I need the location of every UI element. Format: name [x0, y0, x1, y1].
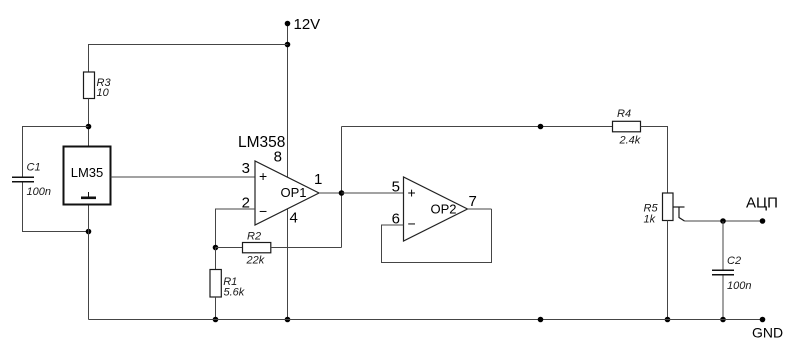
junction C2 top: [720, 218, 726, 224]
resistor R2: [243, 243, 271, 253]
resistor R4: [613, 121, 641, 132]
junction C2 ground: [720, 317, 726, 323]
wire OP1 pin 2 to feedback node: [216, 209, 256, 248]
junction R5 ground: [665, 317, 671, 323]
resistor R3: [84, 72, 95, 99]
svg-text:+: +: [259, 168, 267, 184]
junction LM35 bottom node: [86, 229, 92, 235]
R4 labels: [617, 108, 641, 147]
wire R4 to R5: [641, 127, 668, 194]
svg-text:OP1: OP1: [281, 185, 307, 200]
ADC terminal: [760, 218, 766, 224]
svg-text:1k: 1k: [644, 214, 656, 226]
svg-text:GND: GND: [752, 325, 783, 341]
wire C1 bottom to lower node: [23, 183, 89, 232]
wire feedback vertical to top feed: [341, 127, 343, 248]
wire R5 bottom to rail: [667, 221, 669, 320]
svg-text:OP2: OP2: [431, 202, 457, 217]
junction rail mid: [538, 317, 544, 323]
svg-text:C2: C2: [727, 255, 741, 267]
wire R5 wiper to ADC terminal: [685, 220, 763, 222]
OP1 pin number labels: [242, 149, 323, 227]
wire OP2 feedback loop: [382, 209, 492, 263]
svg-text:+: +: [408, 185, 416, 201]
svg-text:5.6k: 5.6k: [224, 287, 245, 299]
svg-text:1: 1: [314, 171, 322, 188]
junction node pin2/R1/R2: [213, 245, 219, 251]
wire LM35 bottom to ground rail: [88, 205, 90, 320]
op-amp U2 OP2: [404, 177, 468, 241]
wire OP1 output: [319, 192, 342, 194]
svg-text:C1: C1: [27, 162, 41, 174]
svg-text:22k: 22k: [246, 254, 265, 266]
svg-text:10: 10: [97, 87, 110, 99]
wire top rail to R3: [89, 45, 288, 73]
OP2 pin number labels: [392, 179, 477, 228]
capacitor C2: [712, 270, 734, 274]
svg-text:5: 5: [392, 179, 400, 196]
svg-text:−: −: [408, 216, 416, 232]
C1 labels: [27, 162, 51, 199]
svg-text:R2: R2: [247, 231, 261, 243]
wire LM35 output to OP1 pin 3: [111, 176, 256, 178]
potentiometer R5: [663, 193, 685, 221]
op-amp U1 OP1: [255, 161, 319, 225]
wire R3 to LM35 top node: [88, 99, 90, 147]
wire R1 top: [215, 248, 217, 270]
resistor R1: [210, 270, 221, 298]
R1 labels: [223, 276, 245, 299]
R3 labels: [97, 77, 112, 99]
svg-text:АЦП: АЦП: [746, 195, 778, 212]
svg-text:8: 8: [274, 149, 282, 166]
GND terminal: [760, 317, 766, 323]
wire C2 top: [722, 221, 724, 270]
wire top feed to R4: [342, 126, 613, 128]
R2 labels: [246, 231, 265, 267]
wire 12V vertical rail (pin8/pin4 power line): [287, 24, 289, 320]
junction OP1 pin4 ground: [285, 317, 291, 323]
wire R1 bottom to rail: [215, 297, 217, 320]
svg-text:100n: 100n: [727, 280, 751, 292]
junction on feed wire: [538, 124, 544, 130]
LM35 sensor: [64, 147, 111, 205]
svg-text:R4: R4: [617, 108, 631, 120]
svg-text:LM35: LM35: [71, 165, 104, 180]
svg-text:2.4k: 2.4k: [619, 135, 641, 147]
C2 labels: [727, 255, 751, 292]
svg-text:4: 4: [290, 210, 298, 227]
junction node R3/C1/LM35: [86, 124, 92, 130]
svg-text:3: 3: [242, 160, 250, 177]
R5 labels: [644, 203, 659, 226]
ground rail: [89, 319, 763, 321]
wire node to C1 top: [23, 127, 89, 177]
wire OP2 output: [468, 208, 492, 210]
junction R1 ground: [213, 317, 219, 323]
wire node to R2: [216, 247, 243, 249]
svg-text:100n: 100n: [27, 186, 51, 198]
svg-text:−: −: [259, 203, 267, 219]
12V terminal: [285, 21, 291, 27]
junction OP1 output node: [339, 190, 345, 196]
wire R2 to feedback vertical: [271, 247, 342, 249]
capacitor C1: [12, 177, 34, 181]
svg-text:7: 7: [469, 193, 477, 210]
svg-text:12V: 12V: [294, 16, 321, 33]
junction top rail: [285, 42, 291, 48]
wire C2 bottom to rail: [722, 276, 724, 320]
wire OP1 output node to OP2 pin 5: [342, 192, 404, 194]
